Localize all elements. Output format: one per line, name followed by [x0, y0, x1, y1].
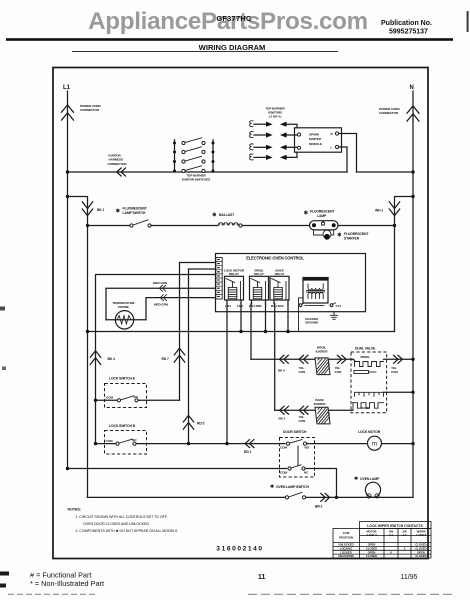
wire bottom L1 line [68, 468, 287, 470]
svg-text:✱: ✱ [354, 476, 358, 482]
svg-text:✱: ✱ [270, 484, 274, 490]
svg-text:SPARK: SPARK [309, 133, 320, 137]
junction L1 bus [66, 170, 69, 173]
svg-text:UNLOCKED: UNLOCKED [338, 543, 353, 547]
door switch dashed box [280, 438, 315, 478]
svg-text:NOTES:: NOTES: [68, 508, 81, 512]
svg-text:COM: COM [106, 396, 113, 400]
terminal CT1 [330, 304, 333, 307]
wire lock motor to N [382, 443, 413, 445]
wire lower bus [88, 331, 395, 333]
wire EOC pin line C [96, 275, 216, 444]
svg-text:X: X [390, 550, 392, 554]
terminal CT2 [299, 304, 302, 307]
svg-text:MED GRN: MED GRN [154, 303, 169, 307]
wire EOC pin line B [189, 269, 216, 444]
wire N vertical [412, 91, 414, 497]
svg-text:COM: COM [280, 446, 287, 450]
switch SW1 [173, 138, 215, 145]
left margin scan marks [0, 307, 5, 311]
svg-text:3 AND 4: 3 AND 4 [366, 533, 377, 537]
svg-text:OPEN: OPEN [417, 550, 425, 554]
svg-text:316002140: 316002140 [216, 546, 263, 553]
svg-text:CON: CON [299, 370, 306, 374]
junction N branch [411, 195, 414, 198]
svg-text:BK 4: BK 4 [108, 357, 116, 361]
switch SW3 [173, 156, 215, 163]
junction RD5 on lock line [187, 442, 190, 445]
ignitor electrode row 2 [250, 132, 298, 138]
connector chevron RD1 on lock line [245, 440, 254, 448]
fluorescent starter S1 [323, 230, 331, 238]
wire EOC drop 265.5 to bus [265, 304, 267, 332]
inductor ballast [218, 223, 238, 226]
svg-text:* = Non-Illustrated Part: * = Non-Illustrated Part [30, 579, 104, 588]
wire EOC drop 288 to bus [287, 304, 289, 332]
switch lock B [96, 438, 138, 445]
svg-text:LM2: LM2 [237, 304, 243, 308]
connector chevrons bake left2 [299, 406, 308, 414]
connector chevron RD5 [183, 415, 193, 429]
wire EOC drop 251.5 to broil line [250, 304, 252, 360]
transformer bottom bar [305, 305, 324, 307]
junction L1 branch [66, 195, 69, 198]
junction EOC drop on lock line [225, 442, 228, 445]
terminal after ballast [239, 224, 242, 227]
svg-text:1 AND 2: 1 AND 2 [416, 533, 427, 537]
svg-text:✱: ✱ [116, 208, 121, 215]
svg-text:BA1 BA2: BA1 BA2 [271, 304, 284, 308]
svg-text:11: 11 [258, 574, 266, 581]
svg-text:DUAL VALVE: DUAL VALVE [355, 346, 376, 350]
bottom scan lines [8, 593, 96, 595]
svg-text:BROIL: BROIL [360, 355, 369, 359]
dual valve dashed box [351, 352, 387, 413]
svg-text:IGNITER: IGNITER [314, 402, 327, 406]
ignitor electrode row 4 [250, 152, 297, 160]
wire EOC drop 227 to lock line [226, 304, 228, 444]
top burner ignitor switches left rail [174, 140, 176, 172]
wire bake line [275, 409, 353, 411]
wire oven lamp line [88, 496, 286, 498]
svg-text:LAMP SWITCH: LAMP SWITCH [123, 211, 146, 215]
svg-text:CLOSED: CLOSED [366, 547, 377, 551]
igniter broil (hatched) [315, 358, 330, 375]
junction lock B feed [94, 442, 97, 445]
wire EOC drop 241 to bus [240, 304, 242, 332]
svg-text:L: L [331, 146, 333, 150]
svg-text:LM1: LM1 [225, 304, 231, 308]
svg-text:LOCK MOTOR: LOCK MOTOR [358, 430, 381, 434]
ignitor harness connector chevron [117, 168, 126, 176]
wire bake valve to N [384, 391, 414, 393]
connector chevron line E [160, 295, 166, 301]
wire broil valve to N [384, 358, 414, 360]
connector chevron BR2 [321, 493, 330, 501]
svg-text:IGNITER: IGNITER [309, 137, 322, 141]
svg-text:RELAY: RELAY [229, 272, 240, 276]
svg-text:RD 7: RD 7 [162, 357, 170, 361]
svg-text:BK 1: BK 1 [97, 208, 105, 212]
header rule [6, 38, 453, 41]
power cord connector N chevrons [407, 106, 419, 121]
junction lower bus left [86, 330, 89, 333]
wire U1 terminal L to L1 bus [339, 147, 347, 172]
svg-text:STARTER: STARTER [344, 237, 360, 241]
svg-text:CT1: CT1 [336, 304, 342, 308]
wire probe bottom [106, 319, 146, 321]
svg-text:CONNECTOR: CONNECTOR [80, 108, 100, 112]
svg-text:OVEN LAMP SWITCH: OVEN LAMP SWITCH [276, 485, 309, 489]
svg-text:OPEN: OPEN [368, 543, 376, 547]
svg-text:✱: ✱ [337, 232, 342, 239]
junction lock A feed [94, 399, 97, 402]
svg-text:RELAY: RELAY [275, 272, 286, 276]
wire EOC drop 274.7 to bake line [274, 304, 276, 410]
junction L1 bottom corner [66, 467, 69, 470]
wire to ballast [151, 225, 218, 227]
connector chevron RD7 [174, 348, 184, 362]
svg-text:POSITION: POSITION [339, 536, 353, 540]
wire door lower to lamp line [305, 469, 336, 498]
svg-text:OVEN LAMP: OVEN LAMP [360, 477, 380, 481]
lock switch B dashed box [105, 431, 147, 455]
switch fluorescent lamp [130, 220, 151, 227]
wire EOC pin line D to probe [106, 288, 216, 320]
svg-text:LOCK SWITCH B: LOCK SWITCH B [109, 424, 136, 428]
svg-text:LOCKING: LOCKING [340, 547, 352, 551]
wire transformer to bus [299, 298, 304, 332]
svg-text:CLOSED: CLOSED [415, 547, 426, 551]
wire ballast to lamp [242, 225, 309, 227]
svg-text:CLOSED: CLOSED [415, 543, 426, 547]
resistor temperature probe [115, 311, 133, 329]
junction lock line N [411, 442, 414, 445]
fluorescent lamp FL1 [310, 221, 339, 230]
svg-text:BR 2: BR 2 [315, 505, 323, 509]
svg-text:11/95: 11/95 [401, 574, 418, 581]
broil valve lower bar [354, 371, 369, 374]
lock wiper switch contacts table [333, 522, 431, 559]
wire lock line [136, 443, 285, 445]
svg-text:MED GRN: MED GRN [153, 281, 168, 285]
relay K2 broil relay [250, 269, 269, 304]
svg-text:m: m [372, 442, 377, 448]
svg-text:PROBE: PROBE [118, 305, 129, 309]
wire U1 terminal B to N side [339, 134, 357, 173]
connector chevrons valve right [394, 355, 403, 363]
svg-text:WH 1: WH 1 [375, 209, 383, 213]
ignitor electrode row 3 [250, 144, 298, 150]
svg-text:OPEN: OPEN [368, 550, 376, 554]
svg-text:2-3: 2-3 [389, 533, 393, 537]
svg-text:OVEN DOOR CLOSED AND UNLOCKED.: OVEN DOOR CLOSED AND UNLOCKED. [83, 522, 150, 526]
junction WH1 lamp line [393, 224, 396, 227]
svg-text:NC: NC [304, 471, 309, 475]
title underline [72, 50, 338, 52]
relay K1 lock motor relay [224, 269, 245, 304]
svg-text:CON: CON [391, 370, 398, 374]
svg-text:MODULE: MODULE [309, 142, 322, 146]
svg-text:L1: L1 [63, 85, 71, 91]
svg-text:WIPER: WIPER [417, 530, 426, 534]
switch SW4 [173, 166, 215, 173]
svg-text:B: B [331, 132, 334, 136]
wire N bus segment [357, 171, 414, 173]
wire EOC pin line A [180, 263, 216, 401]
connector WH1 chevrons down [389, 202, 399, 216]
svg-text:Publication No.: Publication No. [381, 20, 432, 27]
svg-text:WIRING DIAGRAM: WIRING DIAGRAM [199, 43, 266, 52]
connector chevron line D [159, 285, 165, 291]
wire N branch to WH1 [395, 197, 414, 332]
switch SW2 [173, 147, 215, 154]
svg-text:FLUORESCENT: FLUORESCENT [310, 210, 335, 214]
power cord connector L1 chevrons [62, 105, 74, 120]
svg-text:( 2 OR 4 ): ( 2 OR 4 ) [269, 114, 282, 118]
wire L1 vertical [67, 91, 69, 468]
wire L1 branch to BK1 [68, 197, 88, 498]
wire fluorescent line left [88, 225, 131, 227]
door switch mechanical link [297, 446, 299, 467]
svg-text:CON: CON [335, 370, 342, 374]
ignitor electrode row 1 [250, 121, 297, 128]
svg-text:✱: ✱ [212, 212, 217, 219]
op-amp EOC box electronic oven control [216, 254, 366, 312]
junction N bus [411, 170, 414, 173]
svg-text:BAKE: BAKE [361, 406, 369, 410]
svg-text:RD 1: RD 1 [244, 450, 252, 454]
diagram border frame [53, 68, 428, 559]
svg-text:FLUORESCENT: FLUORESCENT [123, 207, 148, 211]
wire lamp to WH1 [338, 225, 395, 227]
svg-text:1. CIRCUIT SHOWN WITH ALL CON: 1. CIRCUIT SHOWN WITH ALL CONTROLS SET T… [76, 515, 168, 519]
svg-text:LOCK WIPER SWITCH CONTACTS: LOCK WIPER SWITCH CONTACTS [367, 524, 423, 528]
connector BK1 chevrons down [82, 202, 92, 216]
connector P1 pin strip [216, 258, 222, 300]
svg-text:BK 6: BK 6 [278, 369, 285, 373]
connector chevrons bake left1 [280, 406, 289, 414]
svg-text:CONNECTOR: CONNECTOR [379, 111, 399, 115]
svg-text:BALLAST: BALLAST [219, 213, 235, 217]
svg-text:LAMP: LAMP [317, 214, 327, 218]
lock switch A dashed box [105, 384, 147, 408]
wire EOC pin line E to probe [146, 298, 216, 320]
svg-text:SW: SW [389, 530, 394, 534]
svg-text:NO: NO [132, 438, 137, 442]
wire broil line [251, 358, 354, 360]
fluorescent starter loop [314, 230, 323, 235]
lamp oven lamp [365, 482, 380, 498]
solenoid broil valve comb [355, 362, 384, 367]
connector chevrons broil left2 [299, 355, 308, 363]
svg-text:NO: NO [134, 395, 139, 399]
svg-text:FLUORESCENT: FLUORESCENT [344, 232, 369, 236]
solenoid bake valve comb [353, 403, 384, 411]
svg-text:5995275137: 5995275137 [389, 29, 428, 36]
svg-text:CONNECTOR: CONNECTOR [108, 162, 128, 166]
svg-text:NO: NO [305, 446, 310, 450]
svg-text:IGNITER: IGNITER [316, 349, 329, 353]
chassis ground symbol [330, 312, 337, 320]
svg-text:ELECTRONIC OVEN CONTROL: ELECTRONIC OVEN CONTROL [246, 256, 304, 261]
igniter bake (hatched) [315, 407, 330, 424]
junction bake N [411, 391, 414, 394]
motor M1 lock motor [368, 436, 382, 450]
svg-text:COM: COM [280, 471, 287, 475]
transformer T1 [303, 277, 329, 303]
svg-text:LOCKED: LOCKED [340, 550, 351, 554]
svg-text:RELAY: RELAY [254, 272, 265, 276]
svg-text:CLOSED: CLOSED [415, 554, 426, 558]
svg-text:DOOR SWITCH: DOOR SWITCH [283, 430, 307, 434]
svg-text:GF377HC: GF377HC [216, 14, 252, 23]
connector chevrons broil right [337, 355, 346, 363]
svg-text:CON: CON [299, 419, 306, 423]
svg-text:CLOSED: CLOSED [366, 554, 377, 558]
terminal pins U1 [297, 133, 300, 136]
svg-text:LOCK SWITCH A: LOCK SWITCH A [109, 377, 136, 381]
relay K3 bake relay [270, 269, 289, 304]
switch door upper [280, 440, 367, 450]
switch door lower [280, 465, 309, 475]
svg-text:GROUND: GROUND [305, 321, 319, 325]
svg-text:COM: COM [106, 439, 113, 443]
svg-text:CAM: CAM [343, 531, 350, 535]
right margin mark [467, 11, 469, 32]
spark igniter module U1 [295, 128, 342, 152]
top burner ignitor switches right rail [212, 140, 214, 172]
svg-text:4-5: 4-5 [403, 533, 407, 537]
svg-text:IGNITOR SWITCHES: IGNITOR SWITCHES [182, 178, 210, 182]
svg-text:X: X [404, 547, 406, 551]
switch lock A [96, 395, 180, 402]
svg-text:SW: SW [402, 530, 407, 534]
junction broil N [411, 358, 414, 361]
junction fluor line start [86, 224, 89, 227]
junction on lamp line [335, 496, 338, 499]
svg-text:2. COMPONENTS WITH ✱ DO NOT A: 2. COMPONENTS WITH ✱ DO NOT APPEAR ON AL… [76, 529, 179, 533]
connector chevron BK4 [90, 351, 100, 365]
svg-text:BK 2: BK 2 [279, 417, 286, 421]
svg-text:✱: ✱ [304, 210, 309, 217]
svg-text:RD 5: RD 5 [197, 422, 205, 426]
switch oven lamp [285, 492, 413, 499]
wire L1 bus [68, 171, 348, 173]
svg-text:N: N [410, 85, 414, 91]
svg-text:UNLOCKING: UNLOCKING [338, 554, 354, 558]
svg-text:MOTOR: MOTOR [367, 530, 377, 534]
connector chevrons broil left [280, 355, 289, 363]
